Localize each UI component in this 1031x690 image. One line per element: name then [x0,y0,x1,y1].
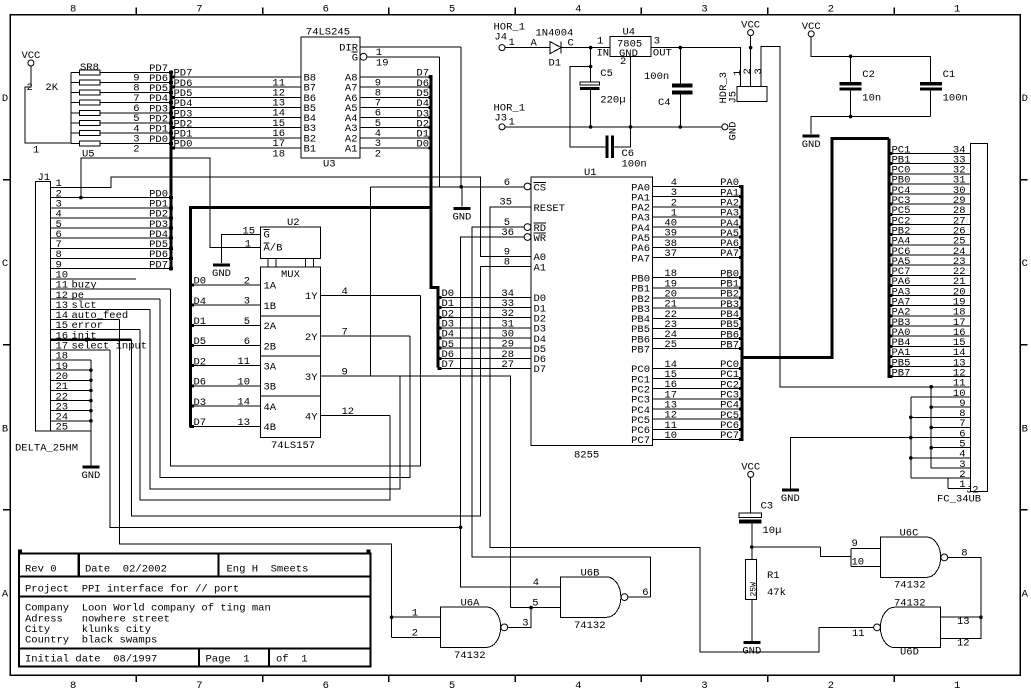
wire U2 3Y output [321,375,400,377]
bus rip [739,418,743,421]
wire slct vertical and channel to U2 3Y [150,309,400,489]
junction C3/R1/U6C [750,545,754,549]
U2 section divider [261,315,321,317]
wire G net corner to CS [439,57,441,187]
wire J1 pin 11 buzy horizontal [50,288,170,290]
svg-text:3: 3 [701,4,707,16]
svg-text:2: 2 [828,680,834,690]
svg-text:11: 11 [852,628,865,640]
wire J2 pin 2 [911,477,971,479]
svg-text:C2: C2 [862,69,875,81]
junction odd bracket [929,446,933,450]
svg-text:2: 2 [620,56,626,68]
wire J1 pin 15 error horizontal [50,329,140,331]
wire J1 pin 4 net PD2 [50,217,169,219]
bus rip [889,213,893,216]
wire U1 PA3 to port bus [652,216,740,218]
bus rip [428,147,432,150]
capacitor C3 plates (polarized) [739,513,762,517]
resistor SR8 element 8 [71,142,80,144]
svg-text:74132: 74132 [454,650,486,662]
svg-text:2: 2 [133,144,139,156]
wire PD bus to U3 B2 [173,137,301,139]
bus rip [190,384,194,387]
svg-text:PD0: PD0 [149,134,168,146]
bus rip [190,324,194,327]
bus rip [889,324,893,327]
bus rip [889,284,893,287]
wire U4 pin2 to ground rail [629,57,631,127]
svg-text:6: 6 [323,4,329,16]
capacitor C5 plates (electrolytic) [590,48,592,83]
svg-text:VCC: VCC [741,20,760,32]
power symbol VCC top right [808,31,814,37]
svg-text:PB7: PB7 [892,368,911,380]
capacitor C4 plates [672,84,693,88]
svg-text:11: 11 [237,356,250,368]
bus rip [889,253,893,256]
wire U1 PA2 to port bus [652,206,740,208]
wire J1 pin 21 [50,389,91,391]
wire busy vertical and channel to U2 1Y [171,289,421,466]
svg-text:C5: C5 [600,68,613,80]
resistor SR8 element 3 [71,92,80,94]
bus rip [428,126,432,129]
wire U6D pin 13 [941,616,981,618]
wire C5 to ground rail [590,90,592,127]
svg-text:MUX: MUX [281,269,301,281]
frame tick top [767,8,769,15]
svg-text:1: 1 [245,238,251,250]
frame tick bottom [893,675,895,682]
bus rip [169,216,173,219]
svg-text:2Y: 2Y [305,332,318,344]
wire U2 4Y output [321,415,390,417]
bracket odd pins vertical [930,387,932,468]
svg-text:A: A [1022,588,1029,600]
wire error vertical and channel to U2 4Y [140,330,390,501]
svg-text:8: 8 [70,4,76,16]
title block corner mark left [18,550,22,555]
capacitor C1 plates [920,82,942,85]
frame tick top [514,8,516,15]
svg-text:Rev 0: Rev 0 [25,564,57,576]
svg-text:GND: GND [802,139,821,151]
wire SR8 element 8 to PD bus [100,142,169,144]
ground symbol below R1 [743,641,760,644]
bus rip [889,274,893,277]
resistor R1 body [745,560,756,600]
U6B output bubble [621,594,628,601]
svg-text:U6B: U6B [581,568,600,580]
power symbol VCC top-left [28,60,34,66]
wire init vertical and channel to A1 net [132,267,531,516]
junction C2 top [849,55,853,59]
junction C2 bottom [849,115,853,119]
wire J2 pin 23 [891,264,971,266]
bus rip [889,233,893,236]
wire PD bus to U3 B4 [173,117,301,119]
svg-text:J3: J3 [494,113,507,125]
svg-text:select input: select input [72,341,148,353]
wire DIR to ground stem [460,47,463,207]
resistor SR8 element 4 [71,102,80,104]
svg-text:C: C [2,258,8,270]
wire U4 OUT to J5 pin1 [651,48,741,87]
wire J1 pin 16 init horizontal [50,338,131,341]
wire J1 pin 3 net PD1 [50,207,169,209]
svg-text:Date 02/2002: Date 02/2002 [85,564,167,576]
wire J5 pin3 to J2 pin 11 [761,47,931,387]
frame tick left [3,509,10,511]
capacitor C2 plates [840,82,862,85]
bus rip [171,86,175,89]
bus U1 ports vertical [740,185,743,441]
svg-text:J5: J5 [728,91,740,104]
svg-text:4: 4 [575,680,581,690]
svg-text:18: 18 [272,148,285,160]
svg-text:1N4004: 1N4004 [536,28,574,40]
svg-text:12: 12 [342,406,355,418]
svg-text:2: 2 [375,148,381,160]
wire D bus to U1 D3 [439,327,531,329]
wire J2 pin 5 [931,447,970,449]
bus rip [438,367,442,370]
connector J1 body [36,181,51,431]
bus rip [171,147,175,150]
bus rip [190,425,194,428]
svg-text:14: 14 [237,397,250,409]
svg-text:74132: 74132 [894,580,926,592]
svg-text:25: 25 [56,422,69,434]
junction DIR net on CS wire [459,185,463,189]
svg-text:Page 1: Page 1 [206,654,250,666]
svg-text:2: 2 [244,275,250,287]
wire J2 pin 14 [891,355,971,357]
svg-text:U1: U1 [584,167,597,179]
svg-text:D3: D3 [194,397,207,409]
wire J2 pin 22 [891,274,971,276]
svg-text:7: 7 [196,680,202,690]
svg-text:D6: D6 [194,377,207,389]
wire J2 pin 10 [911,396,971,398]
ground pin circle right [722,124,728,130]
wire D bus to U2 3B [192,385,261,387]
wire U1 PB3 to port bus [652,307,740,309]
frame tick bottom [640,675,642,682]
wire U2 2Y output [321,335,411,337]
bus rip [169,111,173,114]
svg-text:CS: CS [534,182,547,194]
frame tick bottom [767,675,769,682]
bus rip [428,86,432,89]
bus rip [438,347,442,350]
wire J1 pin 25 [50,430,91,432]
svg-text:B: B [2,423,8,435]
svg-text:PC7: PC7 [720,430,739,442]
bus rip [438,326,442,329]
U2 pin G wire to ground [222,235,261,263]
wire RESET to U6D output net [490,207,819,652]
svg-text:10µ: 10µ [763,525,782,537]
svg-text:5: 5 [532,598,538,610]
svg-text:10: 10 [237,376,250,388]
IC U2 MUX section body [261,267,321,437]
svg-text:VCC: VCC [802,21,821,33]
svg-text:10: 10 [852,557,865,569]
wire VCC to C2/C1 tops [811,37,930,82]
svg-text:5: 5 [449,680,455,690]
wire J1 pin 20 [50,379,91,381]
connector J3 pin circle [499,124,505,130]
bus rip [190,364,194,367]
svg-text:12: 12 [957,638,970,650]
svg-text:D5: D5 [194,336,207,348]
resistor SR8 element 7 [71,132,80,134]
svg-text:5: 5 [244,316,250,328]
svg-text:10n: 10n [862,93,881,105]
svg-text:WR: WR [534,233,547,245]
ground symbol for J2 even pins [782,488,799,491]
svg-text:3: 3 [753,68,765,74]
svg-text:J4: J4 [494,32,507,44]
gate U6B 74132 body [561,577,621,617]
svg-text:1: 1 [954,680,960,690]
wire C4 vertical [679,48,681,127]
svg-text:D7: D7 [534,364,547,376]
svg-text:U4: U4 [623,27,636,39]
wire SR8 element 1 to PD bus [100,71,169,73]
svg-text:100n: 100n [644,71,669,83]
svg-text:R1: R1 [767,570,780,582]
bus rip [190,344,194,347]
wire U1 PB4 to port bus [652,317,740,319]
svg-text:D1: D1 [194,316,207,328]
bus rip [739,276,743,279]
U3 pin G bubble [360,53,367,60]
svg-text:U6C: U6C [900,528,919,540]
gate U6C 74132 body [880,537,940,577]
frame tick top [135,8,137,15]
svg-text:74132: 74132 [574,620,606,632]
svg-text:RESET: RESET [534,203,566,215]
bus rip [889,162,893,165]
U6A output bubble [501,624,508,631]
wire U1 PA0 to port bus [652,186,740,188]
gate U6A 74132 body [440,607,500,647]
wire J2 pin 21 [891,284,971,286]
svg-text:100n: 100n [943,93,968,105]
svg-text:OUT: OUT [653,48,672,60]
bus rip [739,397,743,400]
frame tick top [893,8,895,15]
bus rip [169,267,173,270]
bus D0-D7 from U3 to U1 and U2 [431,75,438,368]
bus rip [889,203,893,206]
wire PD bus to U3 B6 [173,96,301,98]
wire junction to U6C inputs [752,546,821,548]
svg-text:DELTA_25HM: DELTA_25HM [15,443,78,455]
wire C6 right to GND rail [614,127,631,147]
wire RD to U6B output net [472,227,651,597]
wire U1 PB7 to port bus [652,348,740,350]
wire J2 pin 31 [891,183,971,185]
bus rip [889,193,893,196]
wire D bus to U1 D4 [439,337,531,339]
svg-text:D2: D2 [194,356,207,368]
svg-text:D0: D0 [194,276,207,288]
wire C2 vertical top [850,56,852,82]
svg-text:37: 37 [664,248,677,260]
regulator U4 7805 body [610,37,651,57]
svg-text:4Y: 4Y [305,411,318,423]
U3 pin DIR wire [360,46,461,48]
bus rip [171,106,175,109]
wire J1 pin 18 [50,359,91,361]
bus rip [169,227,173,230]
wire pe vertical and channel to U2 2Y [160,299,410,477]
frame tick top [388,8,390,15]
connector J5 HDR_3 body [737,87,767,102]
wire U6A pin2 stub [392,636,441,638]
svg-text:6: 6 [642,587,648,599]
svg-text:GND: GND [728,122,740,141]
svg-text:U6A: U6A [461,598,481,610]
wire SR8 element 7 to PD bus [100,132,169,134]
svg-text:1: 1 [959,479,965,491]
wire U1 PA1 to port bus [652,196,740,198]
svg-text:U5: U5 [82,149,95,161]
svg-text:13: 13 [237,417,250,429]
svg-text:D7: D7 [194,417,207,429]
svg-text:GND: GND [781,493,800,505]
svg-text:4: 4 [575,4,581,16]
bus rip [169,101,173,104]
wire U1 PA7 to port bus [652,257,740,259]
bus rip [190,283,194,286]
junction C5 on rail [589,125,593,129]
wire PD bus to U3 B3 [173,127,301,129]
wire SR8 element 4 to PD bus [100,102,169,104]
junction C4 top [679,46,683,50]
wire J2 pin 32 [891,173,971,175]
wire U1 PC3 to port bus [652,398,740,400]
bus rip [169,132,173,135]
svg-text:3: 3 [701,680,707,690]
wire U5 net from J1 pin2 to U2 A/B [81,158,261,248]
bus rip [438,296,442,299]
wire U1 PC5 to port bus [652,418,740,420]
connector J2 body [971,144,988,492]
U1 pin WR bubble [524,234,531,241]
junction odd bracket [929,426,933,430]
svg-text:B: B [1022,423,1028,435]
svg-text:A: A [2,588,9,600]
bus rip [889,365,893,368]
wire D bus to U1 D2 [439,317,531,319]
frame tick bottom [388,675,390,682]
resistor SR8 element 6 [71,122,80,124]
wire J2 pin 7 [931,426,970,428]
wire J2 pin 11 [931,386,970,388]
junction U4 gnd on rail [629,125,633,129]
wire U1 PC7 to port bus [652,438,740,440]
svg-text:4B: 4B [264,422,277,434]
wire J1 pin 17 select_input horizontal [50,349,110,351]
bus rip [889,345,893,348]
svg-text:G: G [352,52,358,64]
wire U1 PB5 to port bus [652,327,740,329]
wire D bus to U1 D0 [439,296,531,298]
wire J2 pin 4 [911,457,971,459]
ground rail wire [505,126,722,128]
U1 pin CS bubble [524,183,531,190]
bus rip [428,136,432,139]
svg-text:25: 25 [664,339,677,351]
junction U6C output at U6D pin13 [979,615,983,619]
bus ports link to J2 [742,138,889,357]
U6C output bubble [941,554,948,561]
bus rip [438,306,442,309]
bus rip [739,307,743,310]
svg-text:1Y: 1Y [305,291,318,303]
ground symbol at DIR/CS [453,207,470,210]
wire J1 pin 7 net PD5 [50,247,169,249]
gate U6D 74132 body (mirrored) [880,607,940,647]
wire J2 pin 28 [891,213,971,215]
bus rip [889,375,893,378]
capacitor C6 plates [606,136,609,158]
svg-text:Country black swamps: Country black swamps [25,634,157,646]
wire WR to select_input / U6B pin4 [461,237,561,587]
wire SR8 element 3 to PD bus [100,92,169,94]
bus rip [739,195,743,198]
wire J2 pin1 stub vertical [947,478,949,488]
bus rip [428,106,432,109]
bus rip [169,257,173,260]
bus D0-D7 branch to U2 [191,208,431,428]
U6D output bubble [874,624,881,631]
svg-text:1B: 1B [264,301,277,313]
wire D bus to U2 1A [192,284,261,286]
IC U2 section tabs [268,258,314,267]
frame tick right [1020,179,1027,181]
wire U1 PB2 to port bus [652,297,740,299]
junction even bracket [909,436,913,440]
bus rip [169,237,173,240]
svg-text:8: 8 [504,257,510,269]
svg-text:2 2K: 2 2K [27,82,59,94]
U1 pin RD bubble [524,224,531,231]
junction even bracket [909,415,913,419]
power symbol VCC above J5 [748,30,754,36]
bus rip [739,246,743,249]
wire C5 branch to C6 left [570,67,605,147]
svg-text:7: 7 [196,4,202,16]
svg-text:4: 4 [342,286,348,298]
frame tick bottom [135,675,137,682]
wire J1 pin 9 net PD7 [50,268,169,270]
bus rip [171,76,175,79]
svg-text:IN: IN [597,48,610,60]
resistor SR8 element 2 [71,81,80,83]
wire D bus to U1 D7 [439,367,531,369]
wire U3 A5 to D bus [360,106,429,108]
bus rip [739,226,743,229]
power symbol VCC at C3 [748,471,754,477]
svg-text:74LS245: 74LS245 [306,27,350,39]
frame tick right [1020,509,1027,511]
